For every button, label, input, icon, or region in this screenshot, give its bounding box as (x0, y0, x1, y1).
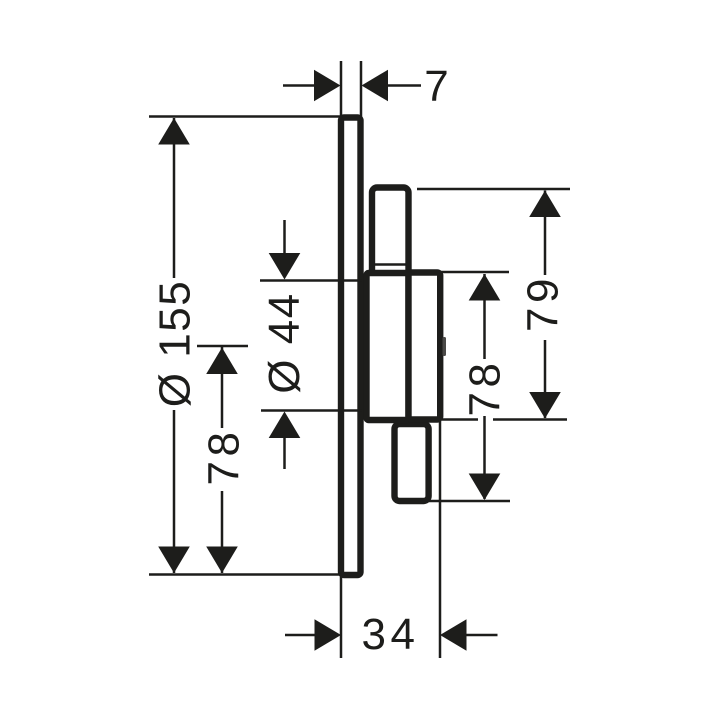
svg-text:Ø 155: Ø 155 (151, 280, 200, 407)
svg-text:78: 78 (460, 359, 509, 417)
svg-text:78: 78 (200, 428, 249, 486)
svg-text:79: 79 (519, 274, 568, 332)
svg-text:7: 7 (424, 62, 448, 111)
svg-text:Ø 44: Ø 44 (260, 292, 309, 393)
svg-text:34: 34 (362, 610, 420, 659)
